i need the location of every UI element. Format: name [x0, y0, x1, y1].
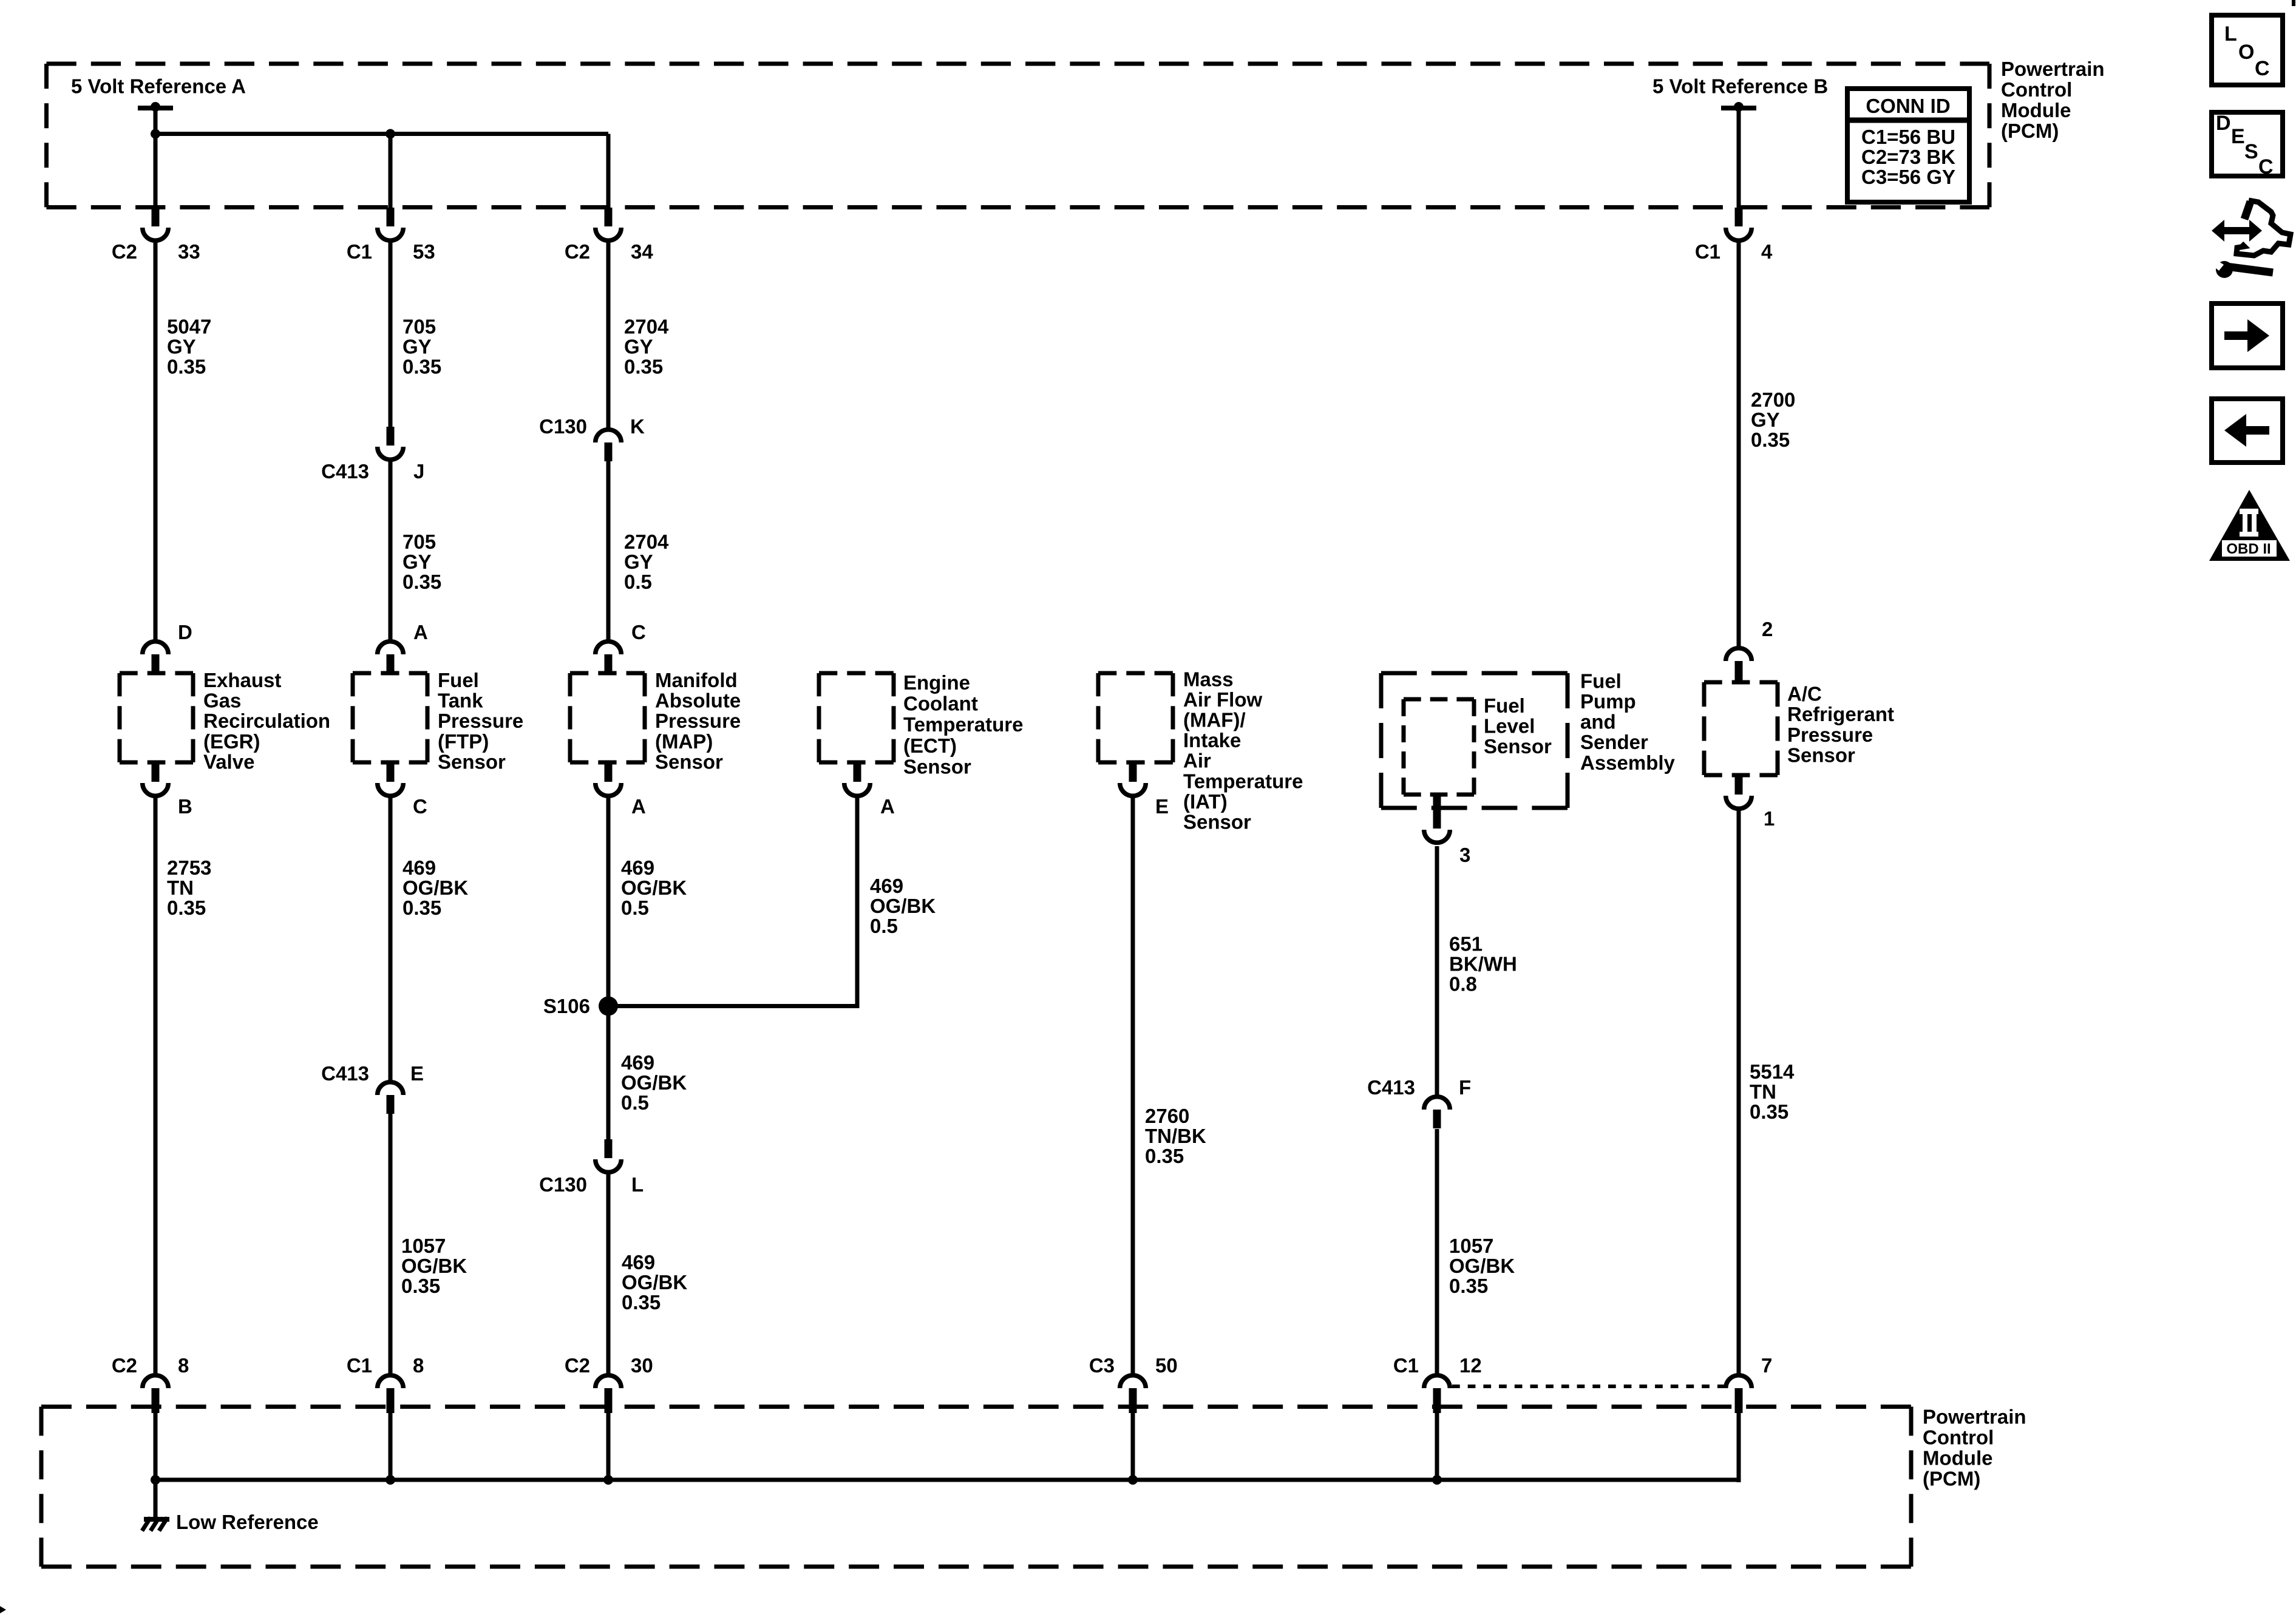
ECT sensor box (dashed): [819, 673, 894, 762]
svg-text:A: A: [413, 621, 428, 643]
wire 5047 GY: [154, 242, 158, 640]
svg-text:C3: C3: [1089, 1354, 1115, 1377]
splice S106: [599, 997, 618, 1016]
svg-text:L: L: [2224, 22, 2237, 46]
svg-text:1057OG/BK0.35: 1057OG/BK0.35: [1449, 1235, 1515, 1297]
MAF/IAT sensor box (dashed): [1098, 673, 1173, 762]
svg-text:C2: C2: [112, 1354, 137, 1377]
connector pin C1-4: [1726, 208, 1752, 240]
svg-text:C1: C1: [1393, 1354, 1419, 1377]
connector inline connector C130 L: [596, 1139, 622, 1172]
svg-text:J: J: [413, 460, 424, 483]
svg-text:ExhaustGasRecirculation(EGR)Va: ExhaustGasRecirculation(EGR)Valve: [203, 669, 330, 773]
svg-text:S: S: [2244, 140, 2258, 163]
svg-text:C130: C130: [539, 415, 587, 438]
bus 5V Ref A: [155, 132, 608, 136]
wire W7 inside PCM: [1737, 107, 1741, 208]
svg-text:EngineCoolantTemperature(ECT)S: EngineCoolantTemperature(ECT)Sensor: [903, 671, 1023, 778]
svg-text:469OG/BK0.35: 469OG/BK0.35: [622, 1251, 687, 1314]
wire 2704 GY upper: [606, 242, 611, 429]
svg-text:PowertrainControlModule(PCM): PowertrainControlModule(PCM): [1923, 1406, 2026, 1490]
connector inline connector C413 F: [1424, 1097, 1450, 1128]
connector inline connector C413 J: [378, 427, 404, 459]
svg-text:2760TN/BK0.35: 2760TN/BK0.35: [1145, 1105, 1206, 1167]
connector inline connector C130 K: [596, 430, 622, 461]
svg-text:5514TN0.35: 5514TN0.35: [1750, 1060, 1795, 1123]
wire pin drop x=643: [389, 1412, 393, 1482]
A/C pressure sensor box (dashed): [1704, 682, 1778, 775]
svg-text:K: K: [630, 415, 645, 438]
connector pin D (EGR): [143, 642, 169, 673]
svg-text:C: C: [2258, 155, 2274, 178]
wire 705 GY lower: [389, 461, 393, 640]
svg-text:S106: S106: [543, 995, 590, 1017]
svg-text:E: E: [1155, 795, 1169, 818]
junction W1/bus: [151, 129, 160, 139]
junction bus x=643: [385, 1475, 395, 1485]
svg-text:705GY0.35: 705GY0.35: [402, 316, 441, 378]
svg-text:C: C: [2255, 57, 2270, 80]
svg-text:C1: C1: [1695, 240, 1720, 263]
svg-text:705GY0.35: 705GY0.35: [402, 531, 441, 593]
svg-text:8: 8: [178, 1354, 189, 1377]
connector pin C1-12: [1424, 1375, 1450, 1413]
svg-text:FuelLevelSensor: FuelLevelSensor: [1484, 694, 1552, 758]
connector pin E (MAF): [1120, 763, 1146, 796]
svg-text:E: E: [410, 1062, 424, 1085]
wire 1057 OG/BK (fuel): [1435, 1129, 1439, 1374]
PCM top box (dashed): [47, 64, 1990, 208]
icon arrow left: [2212, 399, 2283, 463]
svg-text:A: A: [631, 795, 646, 818]
connector pin 3 (fuel sender): [1424, 795, 1450, 842]
svg-text:C1: C1: [347, 1354, 372, 1377]
svg-text:2753TN0.35: 2753TN0.35: [167, 856, 211, 919]
connector pin C (FTP): [378, 763, 404, 796]
svg-text:MassAir Flow(MAF)/IntakeAirTem: MassAir Flow(MAF)/IntakeAirTemperature(I…: [1183, 668, 1303, 833]
svg-text:651BK/WH0.8: 651BK/WH0.8: [1449, 933, 1517, 995]
connector pin C3-50: [1120, 1375, 1146, 1413]
svg-text:FuelPumpandSenderAssembly: FuelPumpandSenderAssembly: [1580, 670, 1676, 773]
wire pin drop x=1002: [606, 1412, 611, 1482]
icon OBD II triangle: [2209, 490, 2290, 561]
junction bus x=1002: [603, 1475, 613, 1485]
wire pin drop x=1866: [1131, 1412, 1135, 1482]
svg-text:C2: C2: [565, 1354, 590, 1377]
wire 469 OG/BK (FTP): [389, 798, 393, 1080]
terminal 5V Reference B: [1721, 102, 1756, 112]
ground Low Reference: [142, 1517, 169, 1531]
icon arrow right: [2212, 303, 2283, 368]
wire 2760 TN/BK: [1131, 798, 1135, 1374]
svg-text:2: 2: [1762, 618, 1773, 640]
CONN ID table: [1847, 89, 1969, 202]
svg-text:34: 34: [631, 240, 653, 263]
wire 1057 OG/BK (FTP): [389, 1114, 393, 1374]
junction bus x=1866: [1128, 1475, 1138, 1485]
svg-text:B: B: [178, 795, 192, 818]
wire 469 OG/BK (MAP): [606, 798, 611, 1140]
svg-text:ManifoldAbsolutePressure(MAP)S: ManifoldAbsolutePressure(MAP)Sensor: [655, 669, 741, 773]
page mark top right: [2292, 0, 2295, 6]
svg-text:1057OG/BK0.35: 1057OG/BK0.35: [401, 1235, 467, 1297]
svg-text:5 Volt Reference B: 5 Volt Reference B: [1652, 75, 1828, 98]
terminal 5V Reference A: [138, 102, 173, 112]
svg-text:C: C: [413, 795, 427, 818]
svg-text:O: O: [2238, 41, 2254, 64]
PCM bottom box (dashed): [41, 1407, 1911, 1567]
svg-text:469OG/BK0.5: 469OG/BK0.5: [870, 875, 936, 937]
svg-text:469OG/BK0.5: 469OG/BK0.5: [621, 856, 687, 919]
connector pin C (MAP): [596, 642, 622, 673]
connector pin C2-30: [596, 1375, 622, 1413]
EGR valve box (dashed): [120, 673, 193, 762]
svg-text:7: 7: [1761, 1354, 1772, 1377]
junction bus x=256: [151, 1475, 160, 1485]
connector pin C2-34: [596, 208, 622, 240]
wire to ground: [154, 1480, 158, 1521]
svg-text:33: 33: [178, 240, 200, 263]
wire W3 inside PCM: [606, 134, 611, 208]
connector pin C1-8: [378, 1375, 404, 1413]
page mark bottom left: [0, 1606, 6, 1613]
wire W1 inside PCM: [154, 107, 158, 208]
svg-text:30: 30: [631, 1354, 653, 1377]
svg-text:8: 8: [413, 1354, 424, 1377]
svg-text:C413: C413: [321, 460, 369, 483]
wire pin drop x=256: [154, 1412, 158, 1482]
svg-text:12: 12: [1459, 1354, 1482, 1377]
svg-text:C2: C2: [565, 240, 590, 263]
junction bus x=2367: [1432, 1475, 1442, 1485]
connector pin 7: [1726, 1375, 1752, 1413]
wire 469 to S106 horizontal: [606, 1004, 860, 1008]
svg-text:L: L: [631, 1173, 644, 1196]
svg-text:C1: C1: [347, 240, 372, 263]
Fuel Level Sensor box (dashed): [1404, 699, 1474, 795]
svg-text:D: D: [178, 621, 192, 643]
connector pin 2 (A/C): [1726, 648, 1752, 682]
svg-text:A: A: [880, 795, 895, 818]
svg-text:E: E: [2231, 125, 2245, 148]
svg-text:D: D: [2216, 112, 2231, 135]
wire 469 OG/BK (ECT) vertical: [855, 798, 860, 1006]
connector pin C2-33: [143, 208, 169, 240]
icon DESC: [2212, 112, 2283, 178]
svg-text:C: C: [631, 621, 646, 643]
svg-text:2704GY0.35: 2704GY0.35: [624, 316, 669, 378]
MAP sensor box (dashed): [570, 673, 645, 762]
connector pin B (EGR): [143, 763, 169, 796]
svg-text:OBD II: OBD II: [2226, 541, 2271, 557]
svg-text:C2=73 BK: C2=73 BK: [1861, 146, 1955, 168]
wire 705 GY upper: [389, 242, 393, 427]
svg-text:C413: C413: [1367, 1076, 1415, 1099]
svg-text:1: 1: [1764, 807, 1775, 830]
svg-text:F: F: [1459, 1076, 1471, 1099]
wire 2704 GY lower: [606, 461, 611, 640]
svg-text:C1=56 BU: C1=56 BU: [1861, 126, 1955, 148]
connector pin C2-8: [143, 1375, 169, 1413]
connector pin 1 (A/C): [1726, 776, 1752, 808]
wire pin drop x=2864: [1737, 1412, 1741, 1482]
connector pin A (FTP): [378, 642, 404, 673]
svg-text:Low Reference: Low Reference: [176, 1511, 319, 1533]
junction W2/bus: [385, 129, 395, 139]
connector pin A (MAP): [596, 763, 622, 796]
svg-text:A/CRefrigerantPressureSensor: A/CRefrigerantPressureSensor: [1787, 683, 1894, 767]
svg-text:C3=56 GY: C3=56 GY: [1861, 166, 1955, 188]
svg-text:469OG/BK0.35: 469OG/BK0.35: [402, 856, 468, 919]
Fuel Pump and Sender Assembly box (dashed): [1381, 673, 1567, 808]
svg-text:FuelTankPressure(FTP)Sensor: FuelTankPressure(FTP)Sensor: [438, 669, 523, 773]
svg-text:C413: C413: [321, 1062, 369, 1085]
svg-text:C2: C2: [112, 240, 137, 263]
wire 2753 TN: [154, 798, 158, 1374]
svg-text:2700GY0.35: 2700GY0.35: [1751, 388, 1795, 451]
wire 5514 TN: [1737, 810, 1741, 1374]
FTP sensor box (dashed): [353, 673, 427, 762]
wire 469 OG/BK 0.35 (MAP low): [606, 1172, 611, 1374]
svg-text:PowertrainControlModule(PCM): PowertrainControlModule(PCM): [2001, 58, 2105, 142]
svg-text:469OG/BK0.5: 469OG/BK0.5: [621, 1051, 687, 1114]
svg-text:2704GY0.5: 2704GY0.5: [624, 531, 669, 593]
wire W2 inside PCM: [389, 134, 393, 208]
wire 2700 GY: [1737, 242, 1741, 646]
connector inline connector C413 E: [378, 1082, 404, 1114]
svg-text:C130: C130: [539, 1173, 587, 1196]
wire pin drop x=2367: [1435, 1412, 1439, 1482]
svg-text:5047GY0.35: 5047GY0.35: [167, 316, 211, 378]
svg-text:53: 53: [413, 240, 435, 263]
icon LOC: [2212, 15, 2283, 85]
bus Low Reference: [155, 1478, 1739, 1482]
svg-text:CONN ID: CONN ID: [1866, 95, 1950, 117]
wire 651 BK/WH: [1435, 846, 1439, 1096]
svg-text:5 Volt Reference A: 5 Volt Reference A: [71, 75, 246, 98]
svg-text:50: 50: [1155, 1354, 1178, 1377]
connector pin C1-53: [378, 208, 404, 240]
svg-text:3: 3: [1459, 844, 1470, 866]
dashed link C1-12 to pin 7: [1452, 1385, 1725, 1388]
svg-text:4: 4: [1761, 240, 1773, 263]
connector pin A bottom (ECT): [844, 763, 871, 796]
icon hand with wrench (service): [2212, 200, 2291, 278]
